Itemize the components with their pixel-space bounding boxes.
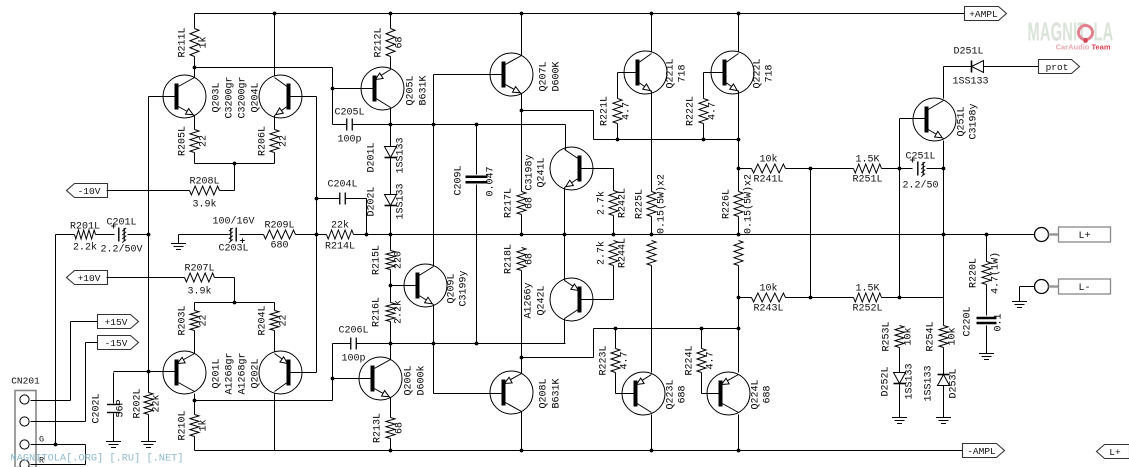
wire	[651, 266, 653, 373]
svg-text:B631K: B631K	[419, 75, 430, 105]
wire	[194, 57, 196, 68]
junction	[389, 342, 393, 346]
junction	[650, 233, 654, 237]
wire	[234, 278, 236, 303]
svg-text:718: 718	[678, 64, 689, 82]
transistor Q209L	[404, 264, 470, 307]
wire	[114, 371, 177, 373]
wire	[564, 235, 566, 281]
wire	[986, 326, 988, 354]
wire	[986, 235, 988, 262]
junction	[389, 449, 393, 453]
wire	[580, 168, 614, 170]
junction	[520, 449, 524, 453]
svg-text:Q208L: Q208L	[539, 378, 550, 408]
wire	[984, 66, 1039, 68]
wire	[651, 14, 653, 52]
junction	[193, 66, 197, 70]
svg-text:R211L: R211L	[178, 27, 189, 57]
junction	[432, 123, 436, 127]
wire	[613, 216, 615, 235]
svg-text:718: 718	[765, 64, 776, 82]
wire	[333, 378, 373, 380]
wire	[195, 302, 275, 304]
wire	[289, 372, 317, 374]
capacitor C205L	[334, 108, 364, 146]
wire	[433, 305, 435, 394]
wire	[390, 344, 392, 360]
svg-text:D251L: D251L	[953, 47, 983, 58]
net tag +15V	[98, 315, 139, 329]
wire	[739, 168, 752, 170]
svg-text:R203L: R203L	[178, 305, 189, 335]
svg-text:68: 68	[395, 422, 406, 434]
svg-text:56P: 56P	[116, 399, 127, 417]
resistor R206L	[258, 126, 290, 156]
svg-text:R225L: R225L	[635, 189, 646, 219]
transistor Q202L	[259, 351, 302, 394]
svg-text:R218L: R218L	[504, 244, 515, 274]
wire	[274, 394, 276, 451]
svg-text:C202L: C202L	[92, 393, 103, 423]
wire	[31, 400, 71, 402]
wire	[476, 125, 478, 175]
wire	[85, 343, 87, 422]
resistor R222L	[686, 96, 719, 126]
svg-text:100p: 100p	[341, 354, 365, 365]
resistor R215L	[372, 245, 405, 275]
junction	[147, 233, 151, 237]
svg-text:C204L: C204L	[327, 180, 357, 191]
transistor Q206L	[359, 357, 428, 400]
junction	[475, 123, 479, 127]
wire	[786, 297, 854, 299]
junction	[475, 342, 479, 346]
svg-text:R205L: R205L	[178, 126, 189, 156]
svg-text:R217L: R217L	[504, 188, 515, 218]
wire	[316, 97, 318, 373]
resistor R224L	[685, 345, 717, 375]
wire	[107, 190, 190, 192]
wire	[521, 271, 523, 358]
svg-text:1k: 1k	[198, 419, 210, 431]
net tag L+ corner	[1097, 445, 1129, 459]
resistor R204L	[258, 305, 290, 335]
resistor R226L second 0.15(5W) unit	[734, 241, 743, 266]
wire	[1019, 287, 1021, 302]
resistor R211L	[178, 27, 210, 57]
ground	[936, 418, 951, 424]
wire	[522, 357, 594, 359]
junction	[389, 233, 393, 237]
terminal L+	[1035, 227, 1111, 242]
resistor R226L	[722, 174, 755, 234]
net tag -AMPL	[963, 444, 1005, 458]
svg-text:R207L: R207L	[184, 264, 214, 275]
junction	[365, 233, 369, 237]
junction	[233, 301, 237, 305]
resistor R203L	[178, 305, 210, 335]
ground	[1012, 302, 1027, 308]
net tag prot	[1039, 60, 1080, 74]
wire	[220, 190, 235, 192]
svg-text:1.5K: 1.5K	[855, 284, 879, 295]
junction	[809, 296, 813, 300]
junction	[520, 109, 524, 113]
wire	[366, 199, 368, 235]
svg-text:R201L: R201L	[70, 222, 100, 233]
wire	[194, 116, 196, 130]
capacitor C201L	[100, 218, 142, 256]
wire	[274, 116, 276, 130]
svg-text:-AMPL: -AMPL	[967, 446, 996, 457]
watermark magnitola logo	[1028, 18, 1114, 51]
svg-text:C220L: C220L	[963, 306, 974, 336]
resistor R244L	[596, 238, 629, 268]
capacitor C204L	[327, 180, 357, 205]
svg-text:2.2/50: 2.2/50	[902, 180, 938, 192]
junction	[331, 377, 335, 381]
svg-text:680: 680	[270, 241, 288, 252]
svg-text:Q242L: Q242L	[537, 285, 548, 315]
wire	[613, 266, 615, 300]
resistor R202L	[133, 388, 163, 418]
resistor R243L	[752, 283, 786, 315]
wire	[882, 297, 944, 299]
svg-text:R254L: R254L	[926, 321, 937, 351]
wire	[738, 91, 740, 192]
svg-text:R202L: R202L	[133, 388, 144, 418]
wire	[289, 96, 317, 98]
junction feedback node	[315, 197, 319, 201]
junction	[737, 449, 741, 453]
wire	[194, 394, 196, 401]
net tag +AMPL	[965, 7, 1007, 21]
svg-text:R242L: R242L	[618, 188, 629, 218]
wire	[521, 94, 523, 192]
svg-text:A1266y: A1266y	[524, 282, 535, 318]
wire	[333, 124, 347, 126]
wire	[616, 393, 636, 395]
resistor R254L	[926, 321, 959, 351]
svg-text:D253L: D253L	[949, 368, 960, 398]
svg-text:10k: 10k	[903, 327, 915, 345]
junction	[389, 284, 393, 288]
wire	[55, 235, 57, 445]
wire	[882, 168, 913, 170]
svg-text:2.7k: 2.7k	[596, 191, 608, 215]
svg-text:1k: 1k	[198, 36, 210, 48]
svg-text:R204L: R204L	[258, 305, 269, 335]
svg-text:Q201L: Q201L	[212, 358, 223, 388]
svg-text:+10V: +10V	[78, 273, 101, 284]
svg-text:2.2k: 2.2k	[393, 300, 405, 324]
junction	[389, 12, 393, 16]
transistor Q207L	[490, 53, 563, 96]
junction	[700, 327, 704, 331]
svg-text:0.047: 0.047	[486, 166, 497, 196]
wire	[86, 342, 98, 344]
svg-text:1SS133: 1SS133	[396, 183, 407, 219]
resistor R220L	[969, 252, 1002, 294]
svg-text:2.2/50V: 2.2/50V	[100, 244, 142, 256]
junction	[737, 12, 741, 16]
junction	[193, 399, 197, 403]
junction	[147, 370, 151, 374]
wire	[96, 234, 115, 236]
wire	[521, 14, 523, 56]
ground	[141, 442, 156, 448]
wire	[701, 373, 703, 394]
svg-text:22: 22	[199, 314, 210, 326]
wire	[390, 206, 392, 235]
resistor R242L	[596, 188, 629, 218]
wire	[195, 67, 333, 69]
transistor Q203L	[163, 75, 206, 118]
transistor Q241L	[525, 147, 594, 191]
svg-text:22: 22	[199, 135, 210, 147]
wire	[274, 153, 276, 164]
wire	[333, 343, 351, 345]
svg-text:688: 688	[763, 385, 774, 403]
resistor R251L	[852, 155, 882, 186]
resistor R218L	[504, 244, 536, 274]
capacitor C203L	[212, 216, 254, 255]
junction	[737, 296, 741, 300]
wire	[594, 328, 739, 330]
svg-text:C209L: C209L	[454, 165, 465, 195]
junction	[702, 138, 706, 142]
wire	[594, 139, 739, 141]
wire	[274, 303, 276, 311]
wire	[564, 188, 566, 235]
capacitor C206L	[338, 326, 368, 365]
junction	[233, 162, 237, 166]
svg-text:Q221L: Q221L	[666, 58, 677, 88]
wire	[943, 141, 945, 235]
junction	[612, 233, 616, 237]
svg-text:D600K: D600K	[552, 61, 563, 91]
svg-text:G: G	[39, 435, 44, 445]
wire	[70, 322, 72, 401]
svg-text:MAGNITOLA[.ORG] [.RU] [.NET]: MAGNITOLA[.ORG] [.RU] [.NET]	[11, 453, 184, 465]
junction	[898, 167, 902, 171]
svg-text:100p: 100p	[337, 135, 361, 146]
svg-text:R209L: R209L	[264, 221, 294, 232]
transistor Q224L	[707, 372, 774, 415]
svg-text:C203L: C203L	[218, 244, 248, 255]
wire	[390, 286, 392, 303]
svg-text:R223L: R223L	[599, 345, 610, 375]
wire	[738, 14, 740, 52]
svg-text:+15V: +15V	[105, 317, 128, 328]
wire	[1020, 286, 1035, 288]
wire	[194, 153, 196, 164]
wire	[148, 97, 150, 372]
net tag -15V	[98, 336, 139, 350]
wire	[194, 68, 196, 78]
svg-text:D202L: D202L	[367, 186, 378, 216]
wire	[194, 437, 196, 451]
wire	[391, 124, 566, 126]
svg-text:-10V: -10V	[78, 186, 101, 197]
wire	[390, 322, 392, 344]
wire	[521, 215, 523, 235]
resistor R209L	[264, 221, 296, 252]
svg-text:C205L: C205L	[334, 108, 364, 119]
junction	[273, 12, 277, 16]
resistor R216L	[372, 297, 405, 327]
wire	[274, 14, 276, 76]
svg-text:+AMPL: +AMPL	[969, 9, 998, 20]
svg-text:688: 688	[678, 385, 689, 403]
wire	[391, 285, 418, 287]
wire	[71, 321, 98, 323]
junction	[650, 12, 654, 16]
svg-text:220: 220	[394, 251, 405, 269]
wire	[704, 72, 725, 74]
svg-text:Q203L: Q203L	[212, 82, 223, 112]
svg-text:C3200gr: C3200gr	[238, 76, 249, 118]
svg-text:D252L: D252L	[881, 366, 892, 396]
wire	[651, 91, 653, 192]
wire	[943, 235, 945, 326]
svg-text:4.7: 4.7	[706, 351, 717, 369]
wire	[195, 400, 333, 402]
wire	[178, 235, 180, 244]
svg-text:Q241L: Q241L	[537, 157, 548, 187]
wire	[564, 319, 566, 344]
resistor R207L	[184, 264, 214, 298]
wire	[580, 299, 614, 301]
svg-text:22k: 22k	[331, 220, 349, 232]
resistor R212L	[374, 27, 406, 57]
wire	[617, 124, 619, 140]
transistor Q222L	[711, 51, 776, 94]
svg-text:1SS133: 1SS133	[924, 365, 935, 401]
resistor R208L	[189, 177, 219, 211]
resistor R223L	[599, 345, 631, 375]
resistor R201L	[70, 222, 100, 254]
svg-text:R224L: R224L	[685, 345, 696, 375]
ground	[979, 354, 994, 360]
wire	[113, 373, 115, 404]
wire	[390, 108, 392, 125]
svg-text:R244L: R244L	[618, 238, 629, 268]
ground	[171, 244, 186, 250]
svg-text:10k: 10k	[759, 283, 777, 295]
wire	[148, 372, 150, 393]
wire	[615, 329, 617, 349]
diode D251L	[972, 61, 984, 73]
capacitor C220L	[977, 318, 997, 323]
wire	[701, 329, 703, 349]
junction	[898, 296, 902, 300]
svg-text:D600k: D600k	[416, 365, 428, 395]
wire	[390, 398, 392, 418]
wire	[390, 14, 392, 29]
wire	[56, 234, 75, 236]
capacitor C209L	[466, 177, 488, 183]
svg-text:A1268gr: A1268gr	[225, 352, 236, 394]
junction	[54, 443, 58, 447]
wire	[617, 73, 619, 99]
capacitor C202L	[92, 393, 127, 423]
wire	[521, 412, 523, 451]
transistor Q204L	[259, 75, 302, 118]
resistor R225L	[635, 174, 668, 234]
svg-text:R243L: R243L	[753, 304, 783, 315]
capacitor C251L	[902, 152, 938, 192]
svg-text:C251L: C251L	[905, 152, 935, 163]
resistor R214L	[325, 220, 355, 253]
wire	[332, 68, 334, 125]
wire	[128, 234, 149, 236]
wire	[739, 297, 752, 299]
svg-text:C201L: C201L	[106, 218, 136, 229]
wire	[593, 111, 595, 140]
junction	[432, 342, 436, 346]
junction	[650, 449, 654, 453]
wire	[434, 393, 504, 395]
wire	[899, 348, 901, 373]
junction	[985, 233, 989, 237]
net tag +10V	[67, 271, 108, 285]
svg-text:D201L: D201L	[367, 142, 378, 172]
svg-text:R220L: R220L	[969, 258, 980, 288]
junction	[614, 327, 618, 331]
resistor R225L second 0.15(5W) unit	[647, 241, 656, 266]
transistor Q201L	[163, 351, 206, 394]
ground	[106, 442, 121, 448]
svg-text:4.7: 4.7	[708, 102, 719, 120]
svg-text:Q202L: Q202L	[251, 358, 262, 388]
svg-text:Q204L: Q204L	[251, 82, 262, 112]
svg-text:4.7: 4.7	[620, 351, 631, 369]
wire	[390, 270, 392, 286]
svg-text:R212L: R212L	[374, 27, 385, 57]
net tag -10V	[67, 184, 108, 198]
svg-text:22: 22	[279, 135, 290, 147]
svg-text:R221L: R221L	[600, 96, 611, 126]
wire	[943, 386, 945, 418]
wire	[565, 125, 567, 151]
transistor Q251L	[913, 98, 980, 141]
svg-text:A1268gr: A1268gr	[238, 352, 249, 394]
wire	[899, 385, 901, 418]
svg-text:R208L: R208L	[189, 177, 219, 188]
wire	[195, 163, 275, 165]
svg-text:3.9k: 3.9k	[192, 199, 216, 211]
wire	[353, 124, 391, 126]
resistor R205L	[178, 126, 210, 156]
wire	[943, 67, 945, 99]
wire	[618, 72, 638, 74]
wire	[943, 348, 945, 375]
svg-text:10k: 10k	[759, 154, 777, 166]
wire	[332, 344, 334, 401]
svg-text:1.5K: 1.5K	[855, 155, 879, 166]
svg-text:prot: prot	[1046, 62, 1069, 73]
resistor R213L	[373, 413, 406, 443]
junction	[520, 233, 524, 237]
wire	[113, 414, 115, 442]
svg-text:1SS133: 1SS133	[396, 137, 407, 173]
svg-text:CarAudio Team: CarAudio Team	[1056, 43, 1111, 52]
wire	[296, 234, 327, 236]
wire	[194, 303, 196, 311]
junction	[737, 138, 741, 142]
